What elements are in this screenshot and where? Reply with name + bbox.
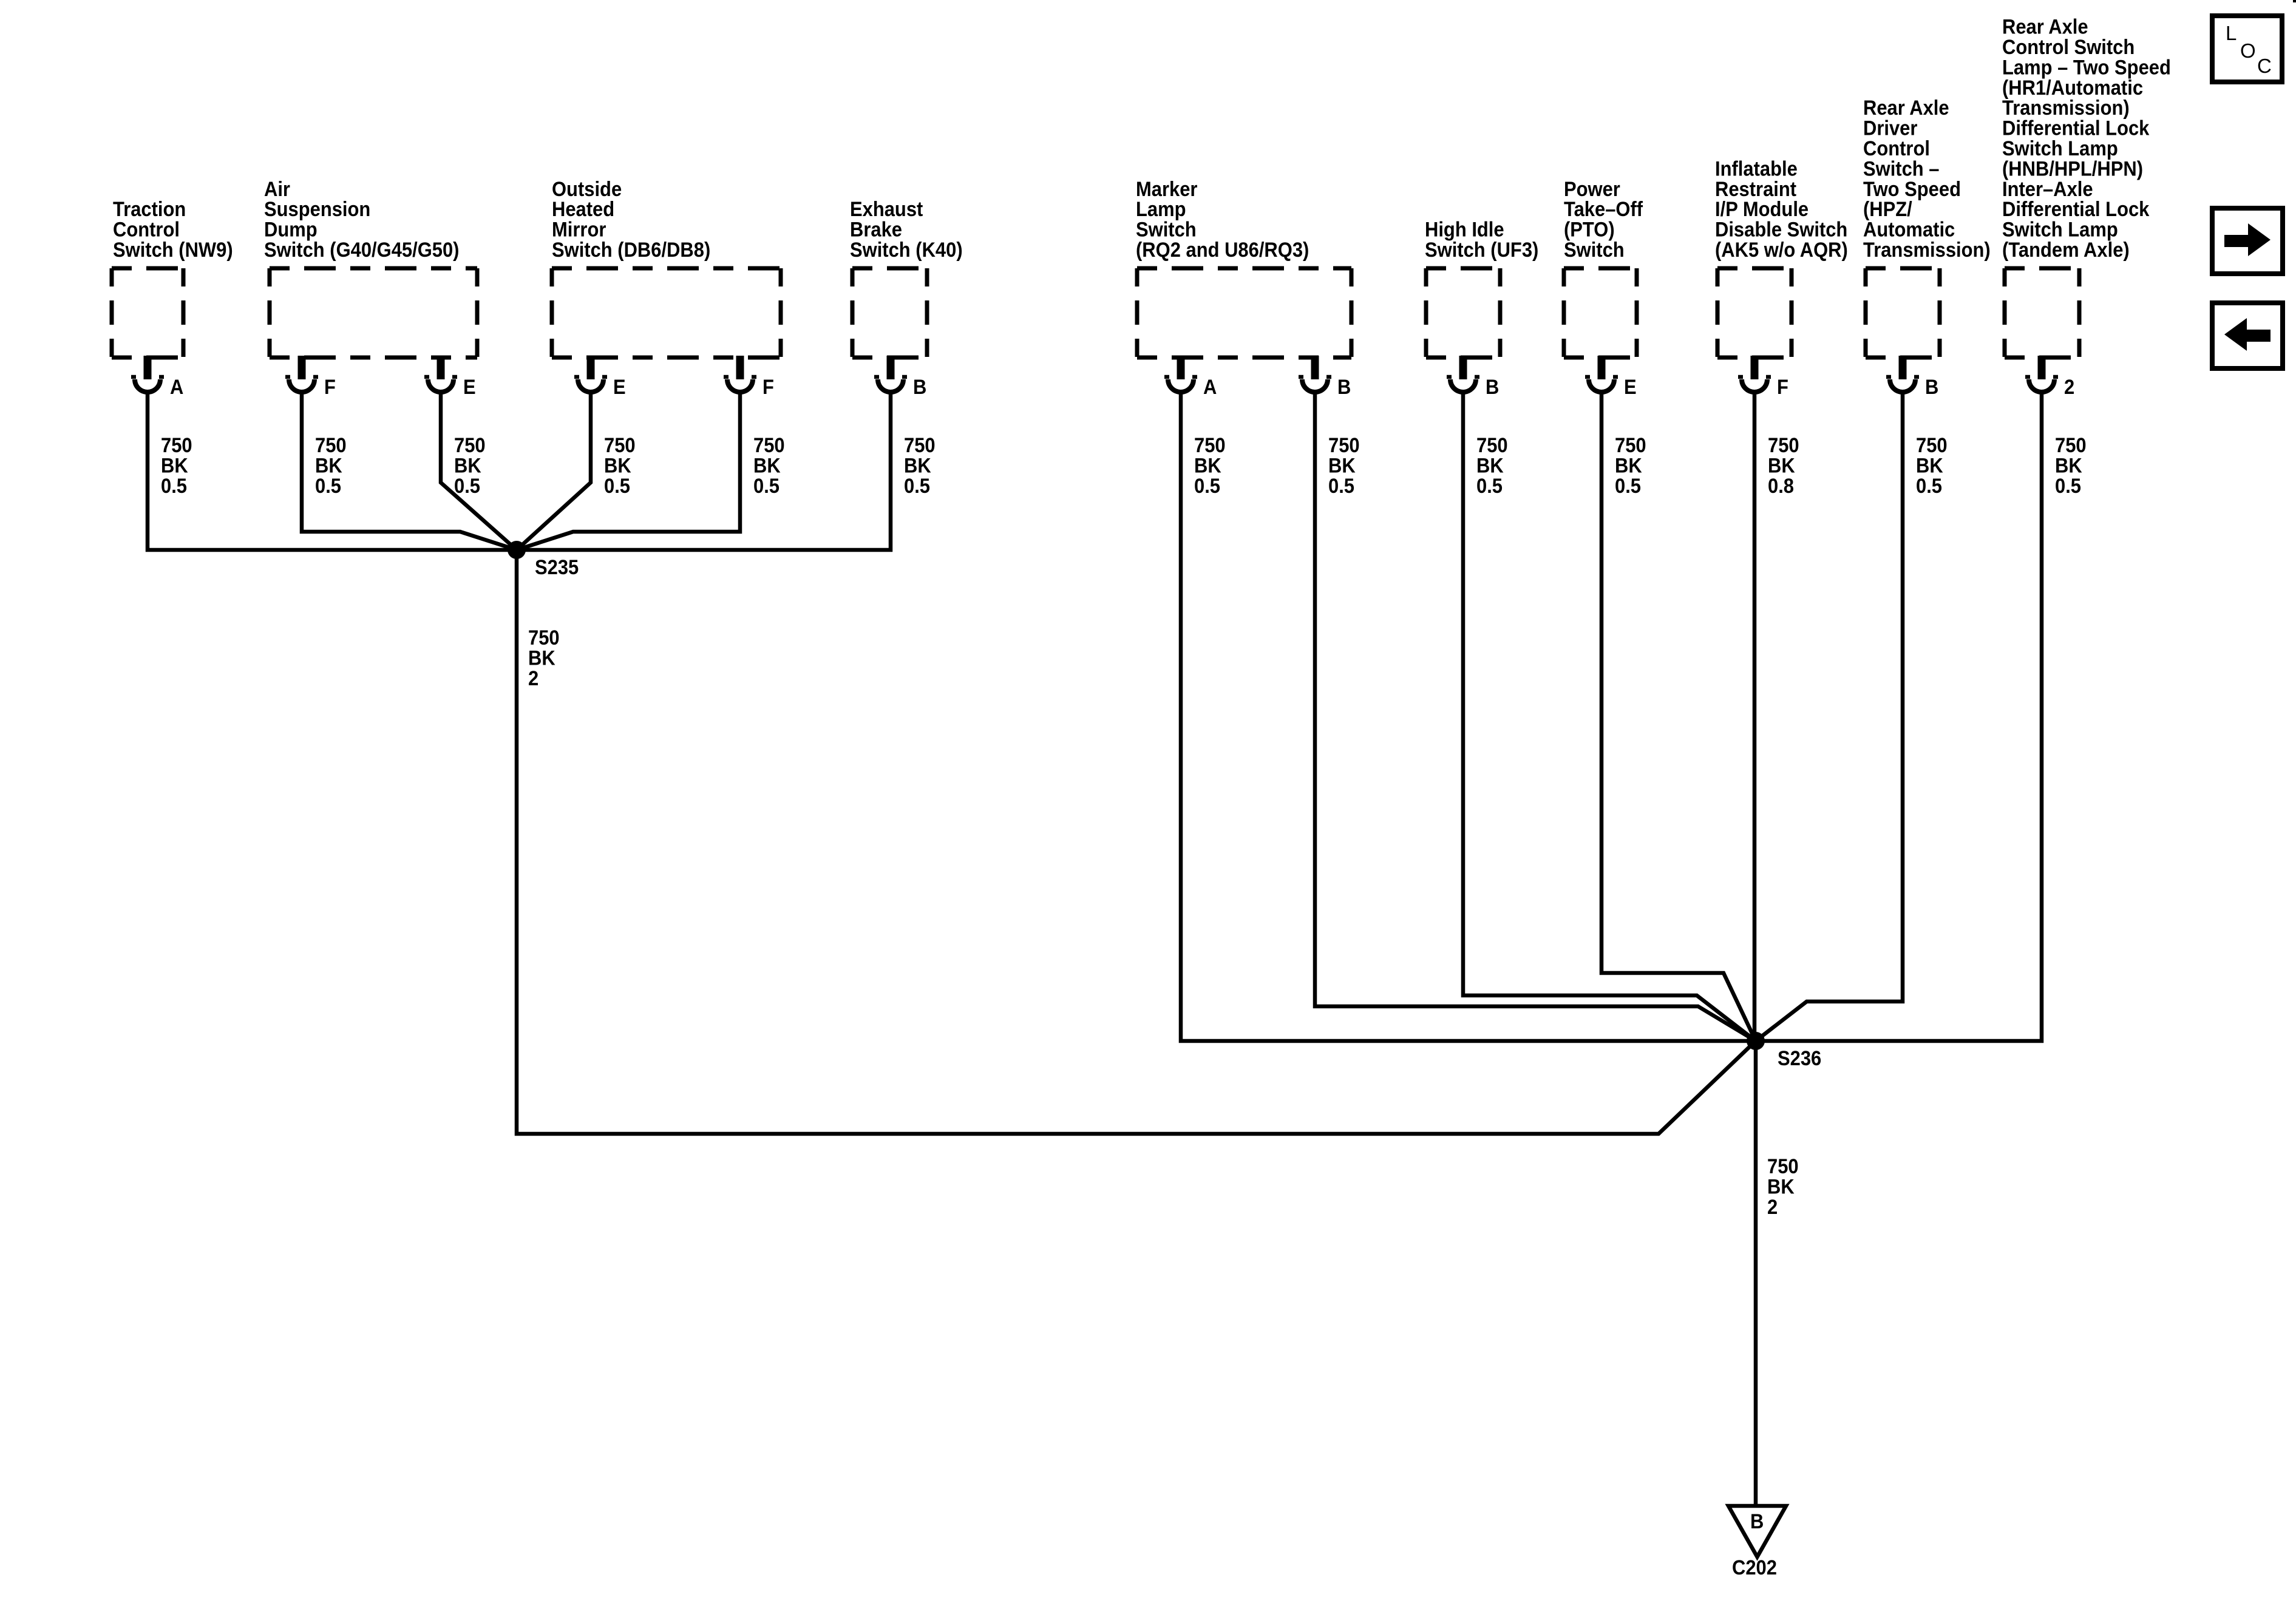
svg-text:L: L: [2226, 22, 2237, 44]
LOC legend box: [2212, 16, 2282, 82]
svg-text:B: B: [1750, 1510, 1764, 1533]
svg-text:E: E: [613, 376, 626, 399]
svg-text:2: 2: [2064, 376, 2074, 399]
connector pin F at x=497: [285, 356, 318, 392]
scan artifact top-right corner: [2293, 0, 2296, 2]
component box: Exhaust Brake Switch (K40): [852, 268, 927, 358]
svg-text:S235: S235: [535, 556, 579, 579]
connector pin 2 at x=3363: [2025, 356, 2058, 392]
connector pin F at x=1219: [724, 356, 756, 392]
svg-text:E: E: [1624, 376, 1637, 399]
svg-text:C: C: [2257, 55, 2272, 77]
component box: Traction Control Switch (NW9): [112, 268, 183, 358]
component box: Power Take-Off (PTO) Switch: [1564, 268, 1637, 358]
svg-text:C202: C202: [1732, 1556, 1777, 1579]
svg-text:F: F: [324, 376, 336, 399]
connector pin E at x=726: [424, 356, 457, 392]
wire: Marker B to S236: [1315, 391, 1756, 1041]
wire: Mirror E to S235: [517, 391, 591, 550]
component box: Rear Axle Driver Control Switch: [1866, 268, 1940, 358]
splice S235: [508, 541, 526, 559]
connector pin B at x=2410: [1447, 356, 1479, 392]
svg-text:E: E: [463, 376, 476, 399]
wire: S236 to C202 (750 BK 2): [1754, 1041, 1758, 1506]
wire: Air Susp F to S235: [302, 391, 517, 550]
connector pin A at x=243: [131, 356, 164, 392]
wire: PTO E to S236: [1601, 391, 1756, 1041]
wire: Rear Axle Driver B to S236: [1756, 391, 1903, 1041]
svg-text:S236: S236: [1778, 1047, 1821, 1070]
connector pin A at x=1945: [1164, 356, 1197, 392]
connector pin B at x=2166: [1299, 356, 1331, 392]
component box: Rear Axle Control Switch Lamp: [2005, 268, 2079, 358]
connector pin E at x=2638: [1585, 356, 1618, 392]
connector pin B at x=3134: [1886, 356, 1919, 392]
connector pin E at x=973: [574, 356, 607, 392]
component box: Marker Lamp Switch: [1137, 268, 1351, 358]
svg-text:F: F: [763, 376, 774, 399]
wire: S235 to S236 (750 BK 2): [517, 550, 1756, 1134]
wire: Exhaust B to S235: [517, 391, 891, 550]
left arrow box: [2212, 303, 2283, 368]
connector pin B at x=1467: [874, 356, 907, 392]
svg-text:B: B: [1925, 376, 1938, 399]
component box: Air Suspension Dump Switch: [270, 268, 477, 358]
svg-text:A: A: [1203, 376, 1217, 399]
svg-text:O: O: [2240, 39, 2256, 62]
svg-text:B: B: [913, 376, 926, 399]
component box: High Idle Switch (UF3): [1426, 268, 1500, 358]
svg-text:A: A: [170, 376, 183, 399]
component box: Inflatable Restraint Disable Switch: [1717, 268, 1792, 358]
wire: Rear Axle Lamp 2 to S236: [1756, 391, 2042, 1041]
wire: Mirror F to S235: [517, 391, 740, 550]
svg-text:F: F: [1777, 376, 1788, 399]
wire: Marker A to S236: [1181, 391, 1756, 1041]
svg-text:B: B: [1337, 376, 1351, 399]
wire: Air Susp E to S235: [441, 391, 517, 550]
wire: Inflatable F to S236: [1753, 391, 1757, 1041]
connector C202 triangle B: [1728, 1506, 1786, 1557]
component box: Outside Heated Mirror Switch: [552, 268, 781, 358]
wire: Traction A to S235: [148, 391, 517, 550]
wire: High Idle B to S236: [1463, 391, 1756, 1041]
svg-text:B: B: [1486, 376, 1499, 399]
connector pin F at x=2890: [1738, 356, 1771, 392]
splice S236: [1747, 1032, 1765, 1050]
right arrow box: [2212, 208, 2283, 274]
